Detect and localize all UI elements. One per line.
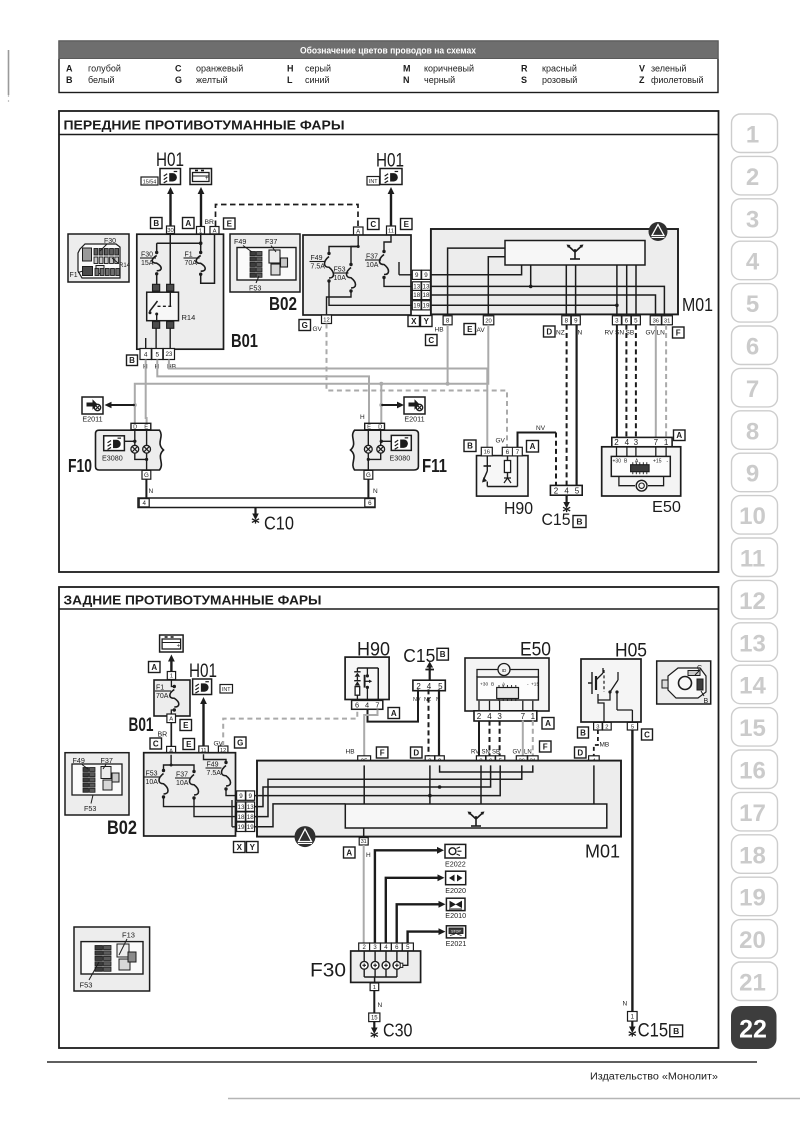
svg-text:16: 16 bbox=[484, 450, 490, 456]
svg-text:10: 10 bbox=[739, 503, 766, 530]
body computer E50 bbox=[602, 447, 681, 496]
svg-text:6: 6 bbox=[368, 500, 372, 507]
svg-text:S: S bbox=[521, 75, 527, 85]
ground point C10 bbox=[254, 508, 256, 517]
svg-text:20: 20 bbox=[739, 927, 766, 954]
connector F bbox=[540, 741, 552, 752]
svg-text:F53: F53 bbox=[84, 804, 96, 813]
svg-text:F: F bbox=[380, 748, 385, 757]
C15 pin row 2 4 5 bbox=[413, 680, 445, 691]
svg-text:3: 3 bbox=[634, 438, 639, 447]
scan artifact: left edge mark bbox=[8, 50, 10, 95]
svg-text:12: 12 bbox=[323, 317, 329, 323]
svg-text:X: X bbox=[237, 843, 243, 852]
svg-text:GV: GV bbox=[646, 330, 656, 337]
svg-text:B01: B01 bbox=[231, 331, 258, 351]
fusebox B02 bbox=[144, 753, 236, 836]
connector E bbox=[401, 219, 413, 230]
svg-text:H: H bbox=[360, 414, 365, 421]
wire: pin 5 jog to lamp 4 bbox=[402, 951, 408, 965]
fusebox location illustration F13 bbox=[74, 927, 150, 991]
wire MB: H05 to M01 pin4 bbox=[594, 730, 598, 756]
svg-text:11: 11 bbox=[740, 546, 765, 573]
connector B bbox=[670, 1025, 683, 1037]
H90 pins 16 6 7 bbox=[481, 447, 492, 456]
svg-text:SB: SB bbox=[492, 750, 500, 756]
svg-text:10A: 10A bbox=[334, 275, 347, 282]
connector A bbox=[527, 441, 539, 453]
connector D bbox=[411, 747, 423, 758]
svg-text:10A: 10A bbox=[146, 779, 159, 786]
wire: F49 to row 19 bbox=[329, 281, 411, 305]
wire: F30 to relay bbox=[156, 274, 158, 285]
svg-text:M01: M01 bbox=[682, 295, 713, 315]
active tab 22 bbox=[731, 1006, 777, 1049]
svg-text:A: A bbox=[346, 848, 352, 857]
pin 30 of B01 bbox=[167, 226, 175, 234]
wire H: M01 to F30 bbox=[363, 845, 365, 943]
svg-text:коричневый: коричневый bbox=[424, 64, 474, 74]
tag INT bbox=[367, 177, 380, 186]
svg-text:синий: синий bbox=[305, 75, 330, 85]
svg-text:19: 19 bbox=[247, 824, 254, 831]
svg-text:F1: F1 bbox=[70, 272, 78, 279]
svg-text:G: G bbox=[175, 75, 182, 85]
svg-text:E: E bbox=[227, 219, 233, 228]
wire: F53 to pin 12 bbox=[327, 291, 352, 315]
connector D bbox=[575, 747, 587, 758]
wire N: M01 pin9 to C15 bbox=[575, 325, 577, 486]
svg-text:C: C bbox=[697, 665, 702, 672]
svg-text:E2011: E2011 bbox=[404, 415, 424, 424]
svg-text:+30: +30 bbox=[613, 459, 622, 465]
svg-text:1: 1 bbox=[531, 712, 536, 721]
svg-text:C15: C15 bbox=[638, 1021, 669, 1042]
svg-text:STOP: STOP bbox=[451, 930, 461, 934]
svg-text:GV: GV bbox=[313, 326, 323, 333]
svg-text:5: 5 bbox=[746, 291, 759, 318]
wire: pin 1 battery arrow bbox=[200, 192, 202, 226]
fog lamp F10 bbox=[96, 430, 164, 470]
svg-text:E2011: E2011 bbox=[82, 415, 102, 424]
fork symbol bbox=[569, 246, 582, 259]
svg-text:12: 12 bbox=[739, 588, 766, 615]
connector E bbox=[183, 739, 195, 750]
wire: pin30 down to relay bbox=[169, 233, 171, 285]
C15 pin row 2 4 5 bbox=[550, 485, 582, 495]
svg-text:14: 14 bbox=[739, 673, 766, 700]
control unit M01 bbox=[257, 761, 621, 837]
pin 1 of B01 bbox=[167, 672, 175, 680]
svg-text:C30: C30 bbox=[383, 1020, 413, 1041]
M01 top pins bbox=[358, 756, 371, 766]
svg-text:А: А bbox=[66, 64, 73, 74]
H05 pins 3 2 bbox=[594, 722, 603, 730]
F11 lamp icon bbox=[391, 435, 411, 450]
svg-text:13: 13 bbox=[413, 284, 420, 291]
svg-text:13: 13 bbox=[423, 284, 430, 291]
wires relay to bottom pins bbox=[155, 328, 157, 348]
svg-text:NV: NV bbox=[536, 425, 546, 432]
connector A bbox=[149, 662, 161, 673]
svg-text:INT: INT bbox=[369, 179, 378, 185]
control unit M01 bbox=[431, 229, 678, 314]
svg-text:A: A bbox=[545, 719, 551, 728]
svg-text:X: X bbox=[411, 317, 417, 326]
wire: pin 11 to F37 bbox=[384, 235, 391, 252]
svg-text:C: C bbox=[370, 220, 376, 229]
svg-text:F: F bbox=[676, 328, 681, 337]
svg-text:31: 31 bbox=[361, 839, 367, 845]
connector B bbox=[573, 516, 586, 528]
connector A bbox=[344, 847, 356, 858]
connector B bbox=[151, 218, 163, 229]
svg-text:5: 5 bbox=[155, 351, 159, 358]
svg-text:красный: красный bbox=[542, 64, 577, 74]
wire: pin A to fuses bbox=[164, 755, 172, 771]
svg-text:18: 18 bbox=[247, 814, 254, 821]
svg-text:13: 13 bbox=[247, 804, 254, 811]
svg-text:G: G bbox=[144, 472, 149, 479]
svg-text:RV: RV bbox=[605, 330, 615, 337]
connector F bbox=[376, 747, 388, 758]
svg-text:E3080: E3080 bbox=[102, 454, 123, 463]
F10 bulbs bbox=[134, 430, 136, 446]
svg-text:2: 2 bbox=[554, 486, 559, 495]
pin A of B01 bbox=[167, 714, 176, 723]
lamp H01 icon 2 bbox=[380, 169, 402, 185]
svg-text:G: G bbox=[302, 321, 308, 330]
svg-text:19: 19 bbox=[413, 303, 420, 310]
wire NV: C15 to H90 pin4 bbox=[368, 689, 419, 721]
svg-text:23: 23 bbox=[165, 351, 172, 358]
connector B bbox=[464, 440, 476, 452]
svg-text:LN: LN bbox=[657, 330, 666, 337]
pin G of F11 bbox=[364, 470, 373, 479]
svg-text:N: N bbox=[623, 1001, 628, 1008]
svg-text:B: B bbox=[576, 517, 582, 527]
svg-text:A: A bbox=[185, 219, 191, 228]
svg-text:18: 18 bbox=[739, 842, 766, 869]
svg-text:D: D bbox=[413, 748, 419, 757]
page index tabs bbox=[732, 114, 778, 153]
connector Y bbox=[247, 842, 259, 853]
svg-text:C15: C15 bbox=[542, 511, 571, 529]
wire: F37 to row 13 bbox=[384, 278, 411, 287]
M01 bottom pin 31 bbox=[363, 828, 365, 838]
wire: pin 30 feed arrow bbox=[169, 192, 171, 226]
svg-text:E2022: E2022 bbox=[445, 860, 466, 869]
svg-text:F30: F30 bbox=[104, 238, 116, 245]
pins 4 5 23 of B01 bbox=[140, 349, 151, 360]
connector Y bbox=[421, 316, 433, 327]
svg-text:1: 1 bbox=[664, 438, 669, 447]
svg-text:V: V bbox=[639, 64, 645, 74]
svg-text:C: C bbox=[153, 739, 159, 748]
svg-text:+15: +15 bbox=[653, 459, 662, 465]
svg-text:8: 8 bbox=[446, 318, 450, 325]
fusebox location illustration B02 bbox=[230, 234, 300, 292]
svg-text:F30: F30 bbox=[310, 961, 346, 982]
legend title bar bbox=[59, 41, 718, 59]
svg-text:F53: F53 bbox=[80, 981, 93, 990]
svg-text:7.5A: 7.5A bbox=[207, 770, 222, 777]
connector X bbox=[408, 316, 420, 327]
pin 12 of B02 bbox=[322, 315, 332, 324]
svg-text:М: М bbox=[403, 64, 411, 74]
svg-text:E50: E50 bbox=[652, 499, 681, 516]
svg-text:розовый: розовый bbox=[542, 75, 577, 85]
svg-text:F13: F13 bbox=[122, 931, 135, 940]
wire: F1 to pin A (BR) bbox=[201, 234, 215, 283]
svg-text:E2021: E2021 bbox=[446, 939, 467, 948]
switch H90 bbox=[477, 456, 529, 497]
legend box bbox=[59, 41, 718, 93]
svg-text:M01: M01 bbox=[585, 842, 620, 862]
svg-text:7: 7 bbox=[516, 449, 520, 456]
svg-text:R: R bbox=[521, 64, 528, 74]
connector C bbox=[368, 219, 380, 230]
svg-text:B: B bbox=[129, 356, 135, 365]
pin G of F10 bbox=[142, 470, 151, 479]
svg-text:R14: R14 bbox=[182, 313, 196, 322]
relay R14 bbox=[153, 284, 160, 291]
wire N: C15 to M01 pin9 bbox=[438, 689, 440, 755]
svg-text:6: 6 bbox=[355, 701, 359, 710]
connector C bbox=[642, 729, 653, 740]
svg-text:ID: ID bbox=[502, 668, 507, 674]
connector E bbox=[224, 218, 236, 229]
M01 maker logo bbox=[649, 222, 668, 241]
panel: front fog lamps bbox=[59, 111, 719, 572]
up arrow to C15 bbox=[429, 667, 431, 681]
svg-text:E2020: E2020 bbox=[445, 886, 466, 895]
svg-text:15: 15 bbox=[739, 715, 766, 742]
svg-text:5: 5 bbox=[631, 724, 634, 730]
svg-text:GV: GV bbox=[496, 438, 506, 445]
wire N: F11 to ground bus bbox=[367, 479, 369, 498]
svg-text:F53: F53 bbox=[249, 284, 261, 293]
svg-text:18: 18 bbox=[238, 814, 245, 821]
wire NZ: C15 to M01 pin8 bbox=[428, 689, 430, 755]
wire H: B01 pin5 to F11 bbox=[157, 360, 369, 424]
svg-text:3: 3 bbox=[615, 318, 619, 325]
wire N: H05 pin5 down bbox=[631, 730, 633, 1012]
svg-text:B: B bbox=[580, 728, 586, 737]
svg-text:С: С bbox=[175, 64, 182, 74]
svg-text:серый: серый bbox=[305, 64, 331, 74]
svg-text:белый: белый bbox=[88, 75, 115, 85]
wire NZ: M01 pin8 to C15 bbox=[566, 325, 568, 486]
svg-text:2: 2 bbox=[614, 438, 619, 447]
svg-text:9: 9 bbox=[574, 318, 578, 325]
svg-text:19: 19 bbox=[423, 303, 430, 310]
to E2011 (right) bbox=[379, 403, 383, 407]
svg-text:черный: черный bbox=[424, 75, 455, 85]
fusebox location illustration F1 bbox=[68, 234, 129, 282]
F30 pins 2 3 4 6 5 bbox=[359, 943, 370, 951]
svg-text:+30: +30 bbox=[480, 682, 488, 688]
svg-text:+: + bbox=[205, 176, 209, 182]
svg-text:B01: B01 bbox=[129, 715, 154, 736]
svg-text:2: 2 bbox=[746, 164, 759, 191]
svg-text:+15: +15 bbox=[531, 682, 539, 688]
svg-text:B02: B02 bbox=[107, 818, 137, 839]
svg-text:2: 2 bbox=[605, 724, 608, 730]
H05 pin 5 bbox=[627, 722, 637, 730]
svg-text:E: E bbox=[186, 740, 192, 749]
svg-text:19: 19 bbox=[739, 885, 766, 912]
connector G bbox=[235, 737, 247, 748]
svg-text:A: A bbox=[530, 442, 536, 451]
svg-text:F37: F37 bbox=[101, 756, 113, 765]
ground bus bar bbox=[138, 498, 375, 508]
svg-text:30: 30 bbox=[167, 228, 173, 234]
svg-text:13: 13 bbox=[739, 630, 766, 657]
svg-text:70A: 70A bbox=[156, 693, 169, 700]
svg-text:36: 36 bbox=[653, 318, 659, 324]
svg-text:4: 4 bbox=[746, 249, 760, 276]
indicator E2021 bbox=[446, 926, 465, 938]
svg-text:N: N bbox=[378, 1002, 383, 1009]
connector E bbox=[180, 720, 192, 731]
svg-text:9: 9 bbox=[248, 793, 252, 800]
wire GV dashed: B02 pin12 to H90 pin6 bbox=[327, 324, 508, 448]
connector B bbox=[127, 355, 138, 366]
scan artifact: bottom edge line bbox=[228, 1098, 800, 1100]
wire HB: B01 pin23 to H90 pin16 (GV) bbox=[169, 360, 487, 448]
svg-text:A: A bbox=[151, 663, 157, 672]
svg-text:зеленый: зеленый bbox=[651, 64, 686, 74]
svg-text:D: D bbox=[577, 748, 583, 757]
connector C bbox=[150, 738, 162, 749]
svg-text:9: 9 bbox=[415, 272, 419, 279]
svg-text:20: 20 bbox=[485, 318, 491, 324]
wire BR: B01 to B02 bbox=[170, 723, 172, 747]
M01 internal wires bbox=[448, 248, 505, 314]
F11 bulbs bbox=[367, 430, 369, 446]
svg-text:оранжевый: оранжевый bbox=[196, 64, 243, 74]
svg-text:BR: BR bbox=[205, 219, 215, 226]
svg-text:15: 15 bbox=[371, 1015, 378, 1021]
svg-text:H90: H90 bbox=[504, 498, 533, 518]
svg-text:5: 5 bbox=[634, 318, 638, 325]
svg-text:15/54: 15/54 bbox=[143, 179, 157, 185]
connector rows 9/13/18/19 bbox=[237, 791, 246, 800]
M01 internal wires bbox=[363, 765, 365, 804]
lamp H01 icon bbox=[193, 679, 212, 695]
panel: rear fog lamps bbox=[59, 587, 719, 1048]
svg-text:F37: F37 bbox=[265, 237, 277, 246]
E50 ID coil bbox=[619, 476, 635, 485]
battery feed icon bbox=[160, 635, 184, 652]
svg-text:1: 1 bbox=[631, 1014, 635, 1021]
svg-text:Z: Z bbox=[639, 75, 645, 85]
M01 inner logic box bbox=[505, 241, 645, 266]
svg-text:9: 9 bbox=[746, 461, 759, 488]
svg-text:8: 8 bbox=[565, 318, 569, 325]
svg-text:5: 5 bbox=[575, 486, 580, 495]
svg-text:E: E bbox=[404, 220, 410, 229]
svg-text:6: 6 bbox=[506, 449, 510, 456]
svg-text:18: 18 bbox=[423, 292, 430, 299]
svg-text:4: 4 bbox=[144, 351, 148, 358]
svg-text:желтый: желтый bbox=[196, 75, 228, 85]
svg-text:22: 22 bbox=[739, 1016, 767, 1044]
wire HB: M01 pin35 to H90 pin7 bbox=[364, 710, 377, 756]
connector A bbox=[388, 708, 400, 719]
fusebox B01 bbox=[137, 234, 224, 349]
M01 maker logo bbox=[295, 826, 316, 847]
svg-text:голубой: голубой bbox=[88, 64, 121, 74]
svg-text:INT: INT bbox=[222, 687, 231, 693]
connector B bbox=[578, 727, 589, 738]
svg-text:6: 6 bbox=[625, 318, 629, 325]
svg-text:N: N bbox=[403, 75, 410, 85]
svg-text:NZ: NZ bbox=[556, 330, 565, 337]
tag INT bbox=[220, 685, 233, 694]
svg-text:7: 7 bbox=[521, 712, 526, 721]
F11 pin row E D bbox=[365, 423, 385, 429]
wire: F49 to row 9 bbox=[226, 789, 255, 796]
svg-text:16: 16 bbox=[739, 758, 766, 785]
svg-text:F11: F11 bbox=[422, 456, 447, 476]
svg-text:19: 19 bbox=[238, 824, 245, 831]
wire: F37 to row 18 bbox=[194, 798, 255, 817]
wire arrow to H01 bbox=[202, 702, 204, 746]
wire: F53 to row 13 bbox=[164, 797, 255, 807]
M01 bottom pins bbox=[443, 316, 452, 325]
svg-text:G: G bbox=[237, 738, 243, 747]
svg-text:F49: F49 bbox=[234, 237, 246, 246]
pin 1 of F30 bbox=[370, 983, 379, 991]
svg-text:C10: C10 bbox=[264, 514, 294, 534]
svg-text:17: 17 bbox=[739, 800, 766, 827]
M01 inner logic box bbox=[345, 804, 607, 828]
wire row 19 stub bbox=[232, 826, 255, 828]
svg-text:Y: Y bbox=[250, 843, 256, 852]
svg-text:SN: SN bbox=[482, 750, 490, 756]
svg-text:Издательство «Монолит»: Издательство «Монолит» bbox=[590, 1072, 718, 1083]
svg-text:1: 1 bbox=[170, 674, 173, 680]
ground C15 bbox=[565, 495, 567, 505]
svg-text:F: F bbox=[543, 742, 548, 751]
svg-text:A: A bbox=[391, 709, 397, 718]
svg-text:G: G bbox=[366, 472, 371, 479]
svg-text:N: N bbox=[373, 488, 378, 495]
F10 pin row D E bbox=[131, 423, 151, 429]
connector X bbox=[234, 842, 246, 853]
fusebox B01 bbox=[154, 680, 190, 716]
svg-text:9: 9 bbox=[239, 793, 243, 800]
wire N: F10 to ground bus bbox=[145, 479, 147, 498]
svg-text:10A: 10A bbox=[366, 262, 379, 269]
fusebox location illustration bbox=[65, 753, 129, 815]
F10 lamp icon bbox=[104, 436, 125, 451]
wire H: B01 pin4 to F10 bbox=[145, 360, 148, 424]
connector A bbox=[542, 718, 554, 730]
svg-text:11: 11 bbox=[388, 229, 394, 235]
svg-text:7: 7 bbox=[746, 376, 759, 403]
svg-text:фиолетовый: фиолетовый bbox=[651, 75, 704, 85]
svg-text:RV: RV bbox=[471, 750, 479, 756]
svg-text:B: B bbox=[704, 698, 709, 705]
svg-text:E: E bbox=[467, 325, 473, 334]
wire N to C30 bbox=[373, 991, 375, 1013]
wire arrow battery bbox=[170, 660, 172, 672]
svg-text:HB: HB bbox=[435, 327, 444, 334]
wire BR dashed to B02 bbox=[216, 205, 359, 228]
